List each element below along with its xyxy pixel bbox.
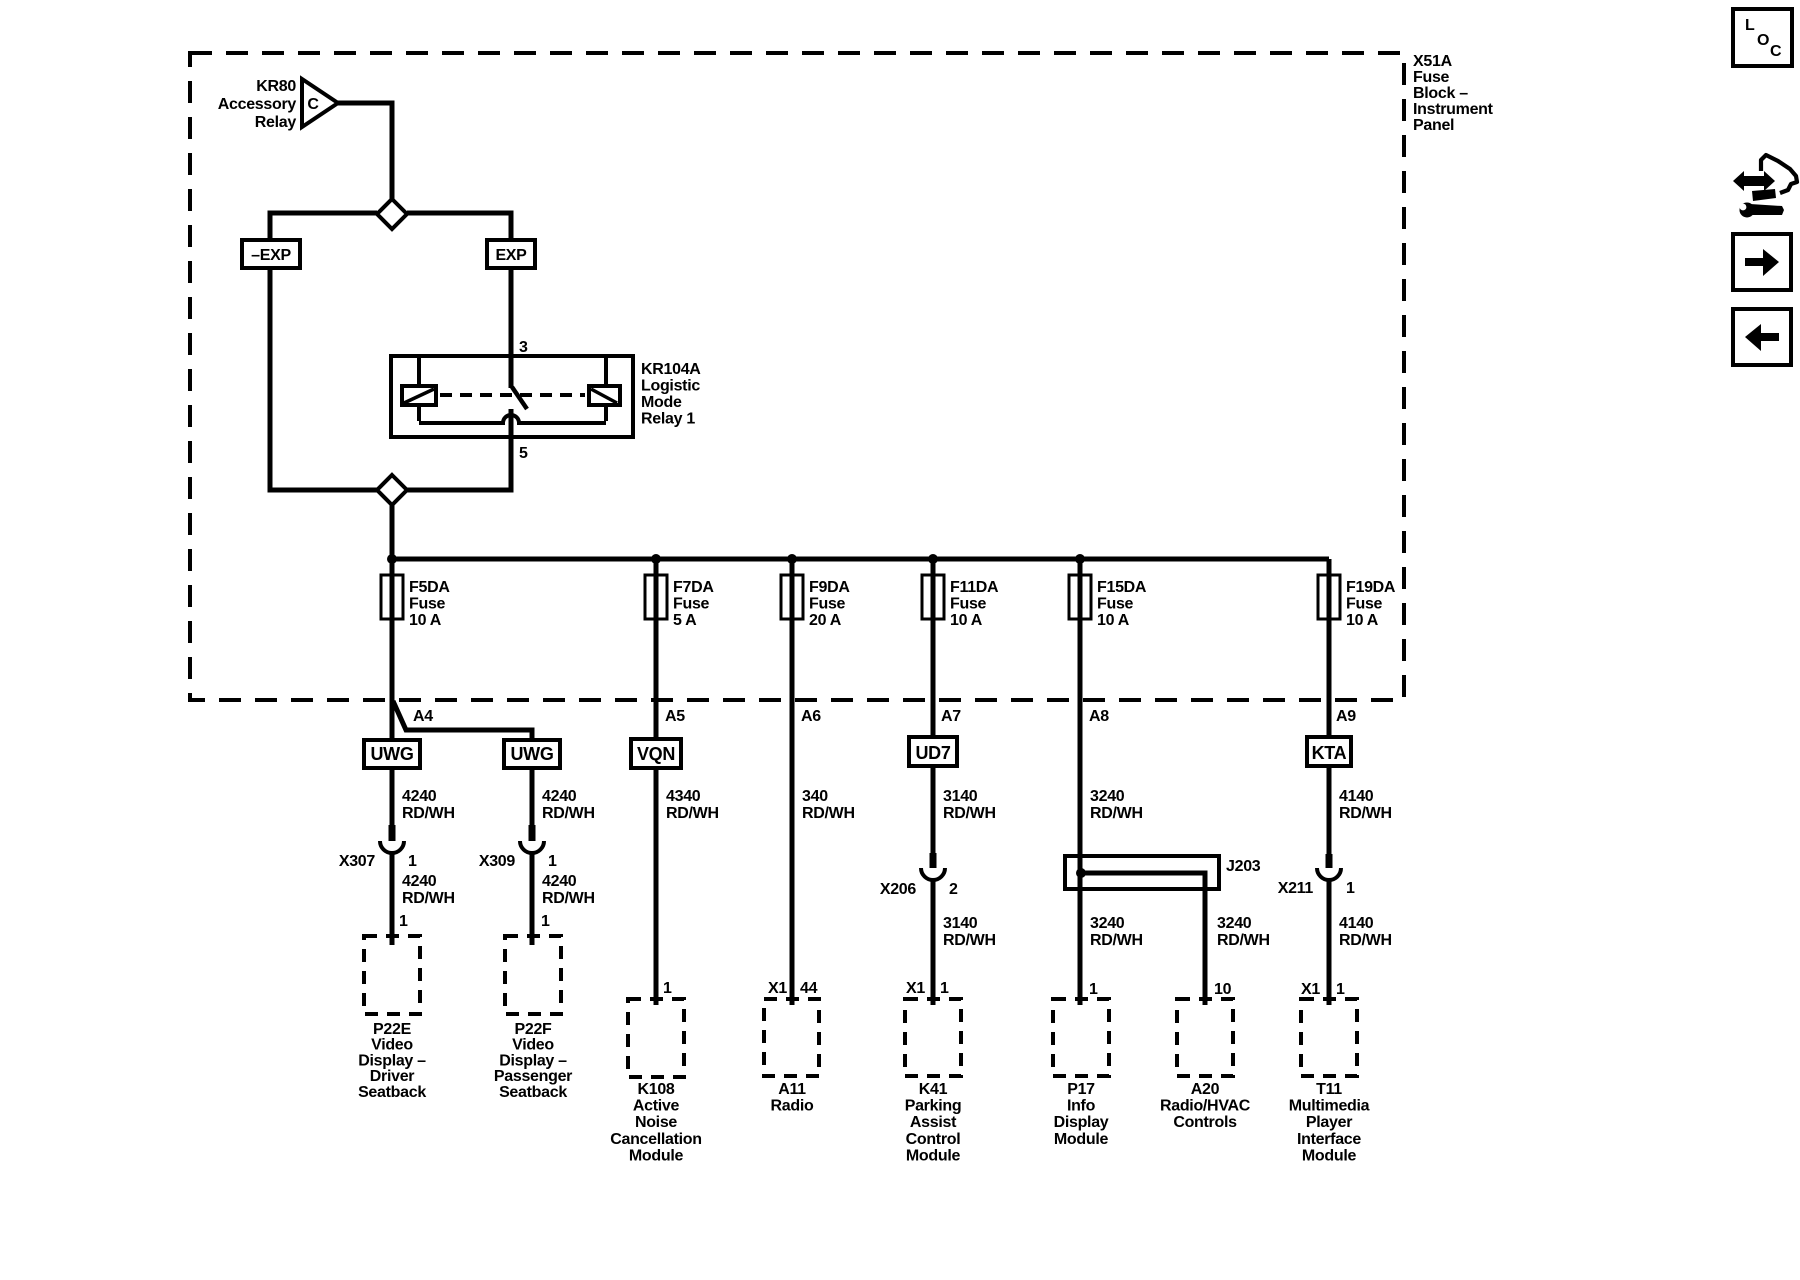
svg-text:Fuse: Fuse [673, 596, 710, 613]
svg-text:KR80: KR80 [256, 78, 296, 95]
svg-text:Accessory: Accessory [218, 96, 297, 113]
svg-text:Module: Module [1054, 1131, 1109, 1148]
svg-text:RD/WH: RD/WH [943, 805, 996, 822]
svg-text:4240: 4240 [542, 788, 577, 805]
svg-text:A6: A6 [801, 708, 821, 725]
svg-text:3: 3 [519, 339, 528, 356]
svg-text:RD/WH: RD/WH [1339, 932, 1392, 949]
svg-text:RD/WH: RD/WH [1090, 805, 1143, 822]
svg-text:RD/WH: RD/WH [802, 805, 855, 822]
svg-text:1: 1 [663, 980, 672, 997]
svg-text:Info: Info [1067, 1098, 1096, 1115]
svg-text:UD7: UD7 [915, 743, 950, 763]
svg-text:4140: 4140 [1339, 915, 1374, 932]
svg-text:Fuse: Fuse [950, 596, 987, 613]
svg-text:1: 1 [548, 853, 557, 870]
svg-text:F5DA: F5DA [409, 579, 450, 596]
svg-text:A7: A7 [941, 708, 961, 725]
svg-text:1: 1 [399, 913, 408, 930]
svg-text:44: 44 [800, 980, 818, 997]
svg-text:10 A: 10 A [950, 612, 983, 629]
svg-text:3240: 3240 [1090, 915, 1125, 932]
svg-text:Control: Control [906, 1131, 961, 1148]
svg-text:Driver: Driver [370, 1068, 415, 1085]
svg-text:RD/WH: RD/WH [666, 805, 719, 822]
svg-text:X1: X1 [906, 980, 925, 997]
svg-text:Fuse: Fuse [1097, 596, 1134, 613]
svg-text:Fuse: Fuse [409, 596, 446, 613]
svg-text:EXP: EXP [495, 247, 527, 264]
svg-text:4340: 4340 [666, 788, 701, 805]
svg-text:Mode: Mode [641, 394, 682, 411]
svg-text:Controls: Controls [1173, 1114, 1237, 1131]
svg-text:F15DA: F15DA [1097, 579, 1147, 596]
svg-text:X211: X211 [1278, 880, 1314, 897]
svg-text:C: C [1770, 43, 1782, 60]
svg-text:RD/WH: RD/WH [1217, 932, 1270, 949]
svg-text:Interface: Interface [1297, 1131, 1361, 1148]
svg-text:F7DA: F7DA [673, 579, 714, 596]
svg-text:10 A: 10 A [409, 612, 442, 629]
svg-text:Noise: Noise [635, 1114, 677, 1131]
svg-text:Display –: Display – [358, 1052, 426, 1069]
svg-text:X309: X309 [479, 853, 516, 870]
svg-text:Block –: Block – [1413, 85, 1468, 102]
svg-text:Player: Player [1306, 1114, 1352, 1131]
svg-text:Module: Module [629, 1147, 684, 1164]
svg-text:RD/WH: RD/WH [402, 805, 455, 822]
svg-text:Video: Video [371, 1037, 413, 1054]
svg-text:Passenger: Passenger [494, 1068, 572, 1085]
svg-text:3140: 3140 [943, 915, 978, 932]
svg-text:RD/WH: RD/WH [402, 890, 455, 907]
svg-text:1: 1 [1089, 981, 1098, 998]
svg-text:Assist: Assist [910, 1114, 957, 1131]
svg-text:RD/WH: RD/WH [542, 890, 595, 907]
svg-text:2: 2 [949, 881, 958, 898]
svg-text:RD/WH: RD/WH [1339, 805, 1392, 822]
svg-text:Seatback: Seatback [499, 1084, 567, 1101]
svg-text:Fuse: Fuse [1413, 69, 1450, 86]
svg-text:A9: A9 [1336, 708, 1356, 725]
svg-text:F19DA: F19DA [1346, 579, 1396, 596]
svg-text:Video: Video [512, 1037, 554, 1054]
svg-text:10: 10 [1214, 981, 1232, 998]
svg-text:Fuse: Fuse [809, 596, 846, 613]
svg-text:Module: Module [906, 1147, 961, 1164]
svg-text:X1: X1 [1301, 981, 1320, 998]
svg-text:Logistic: Logistic [641, 378, 700, 395]
svg-text:5 A: 5 A [673, 612, 697, 629]
svg-text:VQN: VQN [637, 744, 675, 764]
svg-text:Instrument: Instrument [1413, 101, 1494, 118]
svg-text:5: 5 [519, 445, 528, 462]
svg-text:F11DA: F11DA [950, 579, 999, 596]
svg-text:A5: A5 [665, 708, 685, 725]
svg-text:A4: A4 [413, 708, 433, 725]
svg-text:X206: X206 [880, 881, 917, 898]
svg-text:P22E: P22E [373, 1021, 412, 1038]
svg-text:4240: 4240 [542, 873, 577, 890]
svg-text:K108: K108 [637, 1081, 674, 1098]
svg-text:KTA: KTA [1312, 743, 1347, 763]
svg-text:Display –: Display – [499, 1052, 567, 1069]
svg-text:10 A: 10 A [1346, 612, 1379, 629]
svg-text:Radio: Radio [771, 1098, 814, 1115]
svg-text:Parking: Parking [905, 1098, 962, 1115]
svg-text:Seatback: Seatback [358, 1084, 426, 1101]
svg-text:Panel: Panel [1413, 117, 1454, 134]
svg-text:A11: A11 [778, 1081, 806, 1098]
svg-text:Multimedia: Multimedia [1289, 1098, 1370, 1115]
svg-text:L: L [1745, 17, 1755, 34]
svg-text:Relay 1: Relay 1 [641, 411, 695, 428]
svg-text:Display: Display [1054, 1114, 1109, 1131]
svg-text:1: 1 [408, 853, 417, 870]
svg-text:Module: Module [1302, 1147, 1357, 1164]
svg-text:3240: 3240 [1217, 915, 1252, 932]
svg-text:A8: A8 [1089, 708, 1109, 725]
svg-text:F9DA: F9DA [809, 579, 850, 596]
svg-text:3140: 3140 [943, 788, 978, 805]
svg-text:1: 1 [940, 980, 949, 997]
svg-text:X307: X307 [339, 853, 376, 870]
svg-text:X51A: X51A [1413, 53, 1453, 70]
svg-text:Active: Active [633, 1098, 680, 1115]
svg-text:1: 1 [1336, 981, 1345, 998]
svg-text:K41: K41 [919, 1081, 948, 1098]
svg-text:1: 1 [1346, 880, 1355, 897]
svg-text:UWG: UWG [370, 744, 413, 764]
svg-text:3240: 3240 [1090, 788, 1125, 805]
svg-text:4140: 4140 [1339, 788, 1374, 805]
svg-text:UWG: UWG [510, 744, 553, 764]
svg-text:C: C [307, 96, 319, 113]
svg-text:P17: P17 [1067, 1081, 1095, 1098]
svg-text:P22F: P22F [514, 1021, 552, 1038]
svg-text:Relay: Relay [255, 114, 297, 131]
svg-text:340: 340 [802, 788, 828, 805]
svg-text:T11: T11 [1316, 1081, 1342, 1098]
svg-text:KR104A: KR104A [641, 361, 701, 378]
svg-text:Cancellation: Cancellation [610, 1131, 702, 1148]
svg-text:RD/WH: RD/WH [943, 932, 996, 949]
svg-text:Radio/HVAC: Radio/HVAC [1160, 1098, 1251, 1115]
svg-text:Fuse: Fuse [1346, 596, 1383, 613]
svg-text:10 A: 10 A [1097, 612, 1130, 629]
svg-text:J203: J203 [1226, 858, 1261, 875]
svg-text:1: 1 [541, 913, 550, 930]
svg-text:A20: A20 [1191, 1081, 1220, 1098]
svg-text:–EXP: –EXP [251, 247, 291, 264]
svg-text:RD/WH: RD/WH [542, 805, 595, 822]
svg-text:RD/WH: RD/WH [1090, 932, 1143, 949]
svg-text:20 A: 20 A [809, 612, 842, 629]
svg-text:4240: 4240 [402, 873, 437, 890]
svg-text:4240: 4240 [402, 788, 437, 805]
svg-text:O: O [1757, 32, 1769, 49]
svg-text:X1: X1 [768, 980, 787, 997]
